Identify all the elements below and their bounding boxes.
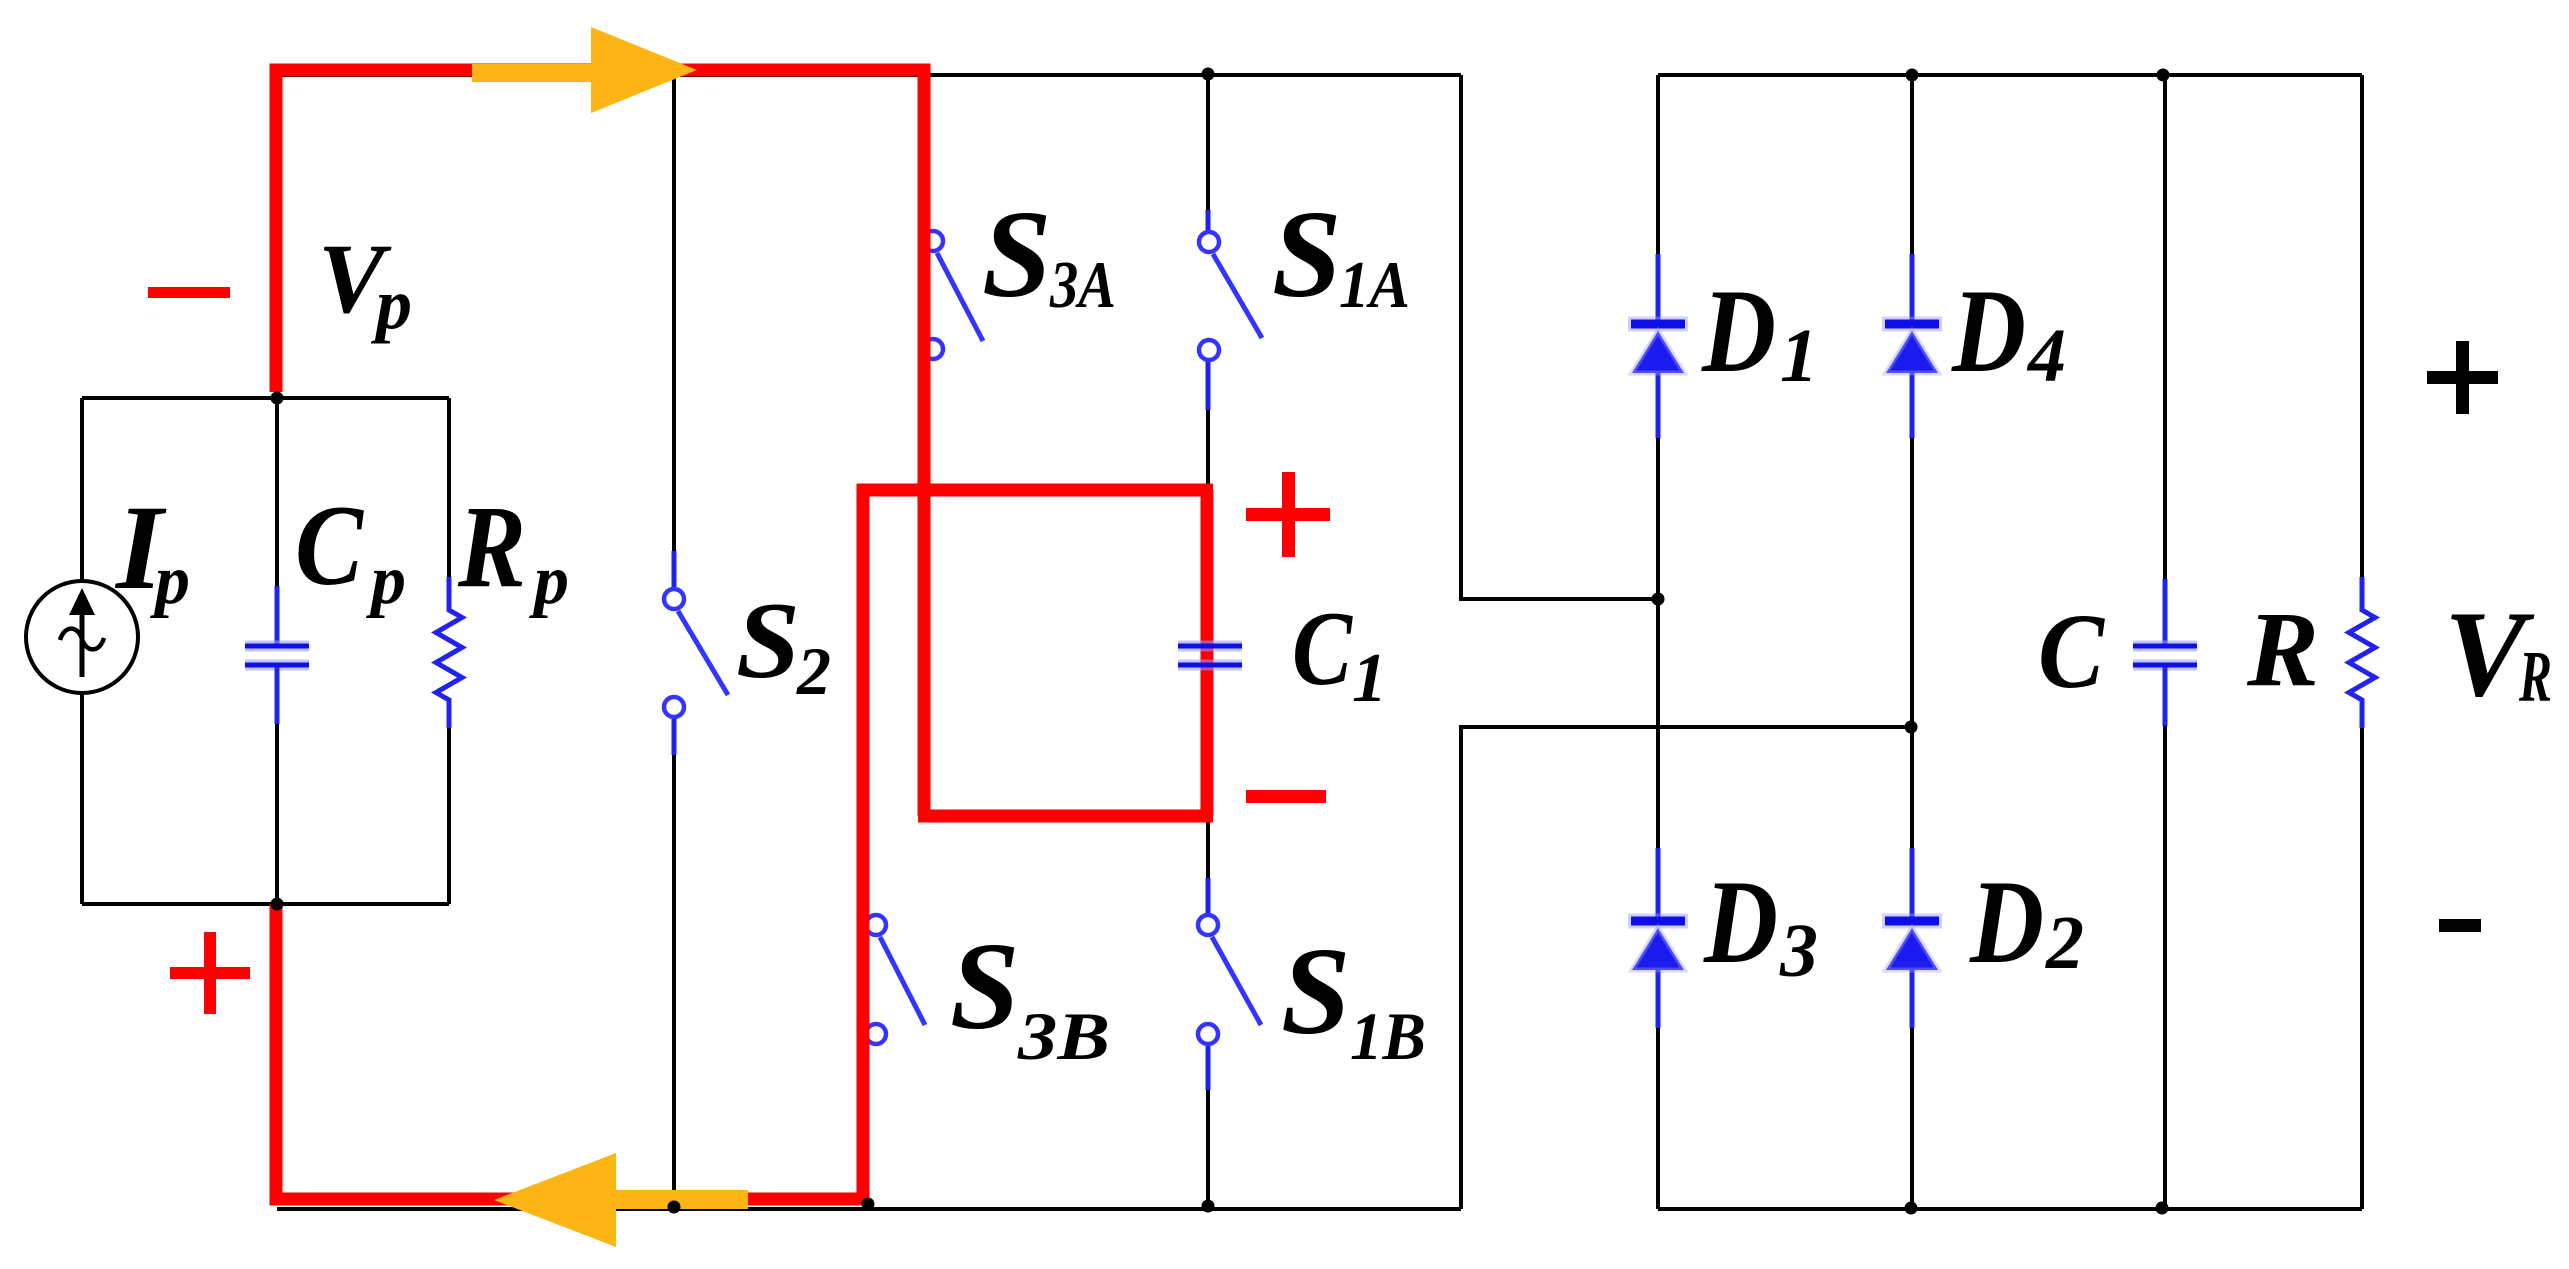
svg-text:R: R [2518,636,2552,717]
node S1B branch at bottom rail [1202,1200,1215,1213]
svg-text:p: p [529,542,569,619]
switch S3A [923,231,983,359]
wire source box top [82,396,449,400]
svg-text:R: R [457,481,526,612]
svg-text:S: S [1281,923,1351,1061]
svg-text:C: C [1292,590,1353,707]
svg-text:C: C [295,482,364,609]
node bridge input lower at D4-D2 midpoint [1905,721,1918,734]
diode D1 [1628,254,1688,438]
switch S1B [1198,878,1261,1090]
svg-text:3A: 3A [1049,248,1116,322]
svg-text:R: R [2246,591,2319,709]
diode D3 [1628,848,1688,1028]
svg-text:2: 2 [796,633,831,709]
svg-text:S: S [736,580,800,701]
plus sign red C1 [1246,472,1330,557]
wire source box left [80,398,84,904]
node S2 branch at bottom rail [668,1201,681,1214]
wire bridge input lower [1461,727,1911,1209]
wire D4 D2 branch [1910,75,1914,1209]
wire red box top edge [857,484,1213,497]
node C branch at bridge top rail [2157,69,2170,82]
wire red highlight path bottom left [276,904,869,1199]
svg-text:1: 1 [1780,314,1818,398]
wire C branch [2163,75,2167,1209]
plus sign red bottom left [170,932,250,1014]
switch S1A [1199,210,1262,410]
svg-text:3: 3 [1779,909,1818,993]
wire Rp branch [447,398,451,904]
wire red box bottom edge [918,810,1213,823]
svg-text:p: p [150,542,190,619]
resistor Rp [436,577,462,728]
svg-text:D: D [1703,855,1778,988]
node bridge input upper at D1-D3 midpoint [1652,593,1665,606]
switch S2 [664,551,728,755]
capacitor C1 [1178,646,1242,665]
svg-text:D: D [1701,264,1776,397]
wire red highlight S3B vertical [857,484,870,1199]
node D2 branch at bridge bottom rail [1905,1202,1918,1215]
svg-text:S: S [950,918,1020,1056]
svg-text:3B: 3B [1017,998,1110,1074]
svg-text:p: p [366,542,406,619]
svg-text:1B: 1B [1350,998,1426,1074]
node S3B branch at bottom rail [862,1198,875,1211]
svg-text:1A: 1A [1339,248,1410,322]
svg-text:D: D [1969,855,2044,988]
wire bottom rail bridge section [1658,1207,2362,1211]
wire S2 branch [672,75,676,1209]
node bottom of parallel network [271,898,284,911]
wire Cp branch [275,398,279,904]
wire D1 D3 branch [1656,75,1660,1209]
svg-text:2: 2 [2045,901,2084,985]
svg-text:C: C [2038,593,2106,711]
diode D2 [1882,848,1942,1028]
diode D4 [1882,254,1942,438]
wire red highlight path top and S3A [276,70,924,816]
wire R branch [2360,75,2364,1209]
wire S1A C1 S1B branch [1206,75,1210,1209]
current flow arrow top [472,27,697,113]
wire top rail left section [277,73,1461,77]
minus sign black output [2439,919,2481,932]
current source Ip [26,581,138,693]
svg-text:S: S [1272,186,1342,324]
wire top rail bridge section [1658,73,2362,77]
capacitor C [2133,579,2197,726]
capacitor Cp [245,586,309,724]
minus sign red left [148,287,230,298]
wire red box right edge over C1 [1201,490,1214,816]
svg-text:1: 1 [1352,640,1387,717]
plus sign black output [2427,341,2498,414]
svg-text:4: 4 [2026,314,2066,398]
wire bridge input upper [1461,75,1658,599]
minus sign red C1 [1246,790,1326,803]
svg-text:S: S [982,186,1052,324]
resistor R [2349,577,2375,728]
wire source box bottom [82,902,449,906]
node C branch at bridge bottom rail [2156,1202,2169,1215]
node D4 branch at bridge top rail [1906,69,1919,82]
switch S3B [866,915,925,1044]
node Vp top of parallel network [271,392,284,405]
svg-text:p: p [370,264,412,344]
current flow arrow bottom [494,1153,748,1247]
wire bottom rail left section [277,1207,1461,1211]
node S1A branch at top rail [1202,68,1215,81]
svg-text:D: D [1951,264,2026,397]
